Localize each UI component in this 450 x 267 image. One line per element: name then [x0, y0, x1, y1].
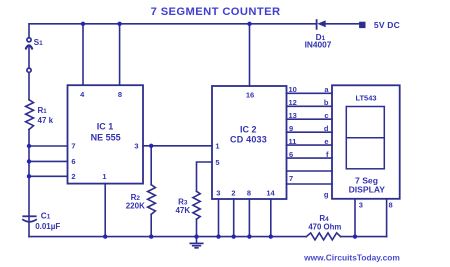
wire IC2 pin14 drop [270, 199, 272, 237]
IC2 box CD4033 [212, 86, 287, 199]
svg-text:R1: R1 [38, 106, 48, 115]
svg-text:220K: 220K [126, 202, 145, 211]
svg-text:3: 3 [216, 189, 220, 198]
junction node rail/IC2 pin2 [232, 234, 236, 238]
svg-text:10: 10 [289, 85, 297, 94]
svg-text:IC 2: IC 2 [240, 124, 257, 134]
junction node left/pin2 [27, 174, 31, 178]
svg-text:2: 2 [231, 189, 235, 198]
svg-text:g: g [324, 190, 329, 199]
svg-text:13: 13 [289, 111, 297, 120]
capacitor C1 bottom plate [22, 219, 37, 222]
junction node rail/pin1 [103, 234, 107, 238]
wire bottom rail right of R4 [341, 236, 387, 238]
svg-text:CD 4033: CD 4033 [230, 134, 267, 144]
svg-text:IC 1: IC 1 [97, 122, 114, 132]
junction node left/pin7 [27, 144, 31, 148]
wire IC1 pin2 stub [29, 175, 68, 177]
svg-text:16: 16 [246, 91, 254, 100]
wire ladder pin9 to d [287, 131, 333, 133]
wire display pin8 drop [386, 199, 388, 237]
wire IC1 pin3 to IC2 pin1 [143, 145, 212, 147]
svg-text:47K: 47K [175, 206, 190, 215]
svg-text:R3: R3 [178, 197, 188, 206]
wire IC2 pin3 drop [218, 199, 220, 237]
junction node rail/pin4 [81, 22, 85, 26]
wire IC2 pin5 to R3 [197, 162, 213, 191]
wire R3 lower lead [196, 219, 198, 236]
svg-text:5: 5 [215, 158, 219, 167]
wire ladder pin10 to a [287, 92, 333, 94]
7-seg digit middle bar [346, 137, 384, 139]
5V DC terminal square [359, 22, 365, 28]
svg-text:6: 6 [71, 157, 75, 166]
junction node rail/R2 [149, 234, 153, 238]
svg-text:e: e [324, 137, 328, 146]
wire ladder spare [287, 170, 333, 172]
7-seg display U3 box [332, 85, 400, 199]
svg-text:3: 3 [359, 201, 363, 210]
wire ladder pin13 to c [287, 118, 333, 120]
svg-text:47 k: 47 k [38, 116, 54, 125]
wire ladder pin6 to f [287, 157, 333, 159]
svg-text:NE 555: NE 555 [91, 132, 121, 142]
wire IC1 pin8 drop from rail [119, 24, 121, 85]
wire top rail right segment to 5V terminal [326, 23, 360, 25]
wire left rail R1 to C1 [28, 130, 30, 237]
svg-text:470 Ohm: 470 Ohm [308, 223, 341, 232]
switch S1 top contact circle [27, 38, 31, 42]
wire ladder pin12 to b [287, 105, 333, 107]
wire C1 to bottom rail corner [29, 236, 306, 238]
wire IC1 pin6 stub [29, 160, 68, 162]
svg-text:7: 7 [289, 174, 293, 183]
wire ladder pin7 to g [287, 183, 333, 185]
wire IC1 pin7 stub [29, 145, 68, 147]
wire R2 upper lead [150, 146, 152, 185]
switch S1 bottom contact circle [27, 68, 31, 72]
ground symbol bar3 [195, 247, 198, 249]
svg-text:9: 9 [289, 124, 293, 133]
junction node pin3/R2 [149, 144, 153, 148]
svg-text:b: b [324, 98, 329, 107]
junction node rail/pin16 [247, 22, 251, 26]
svg-text:5V DC: 5V DC [374, 20, 400, 30]
svg-text:6: 6 [289, 150, 293, 159]
ground symbol stub [196, 237, 198, 243]
resistor R2 220K zigzag [148, 185, 156, 215]
wire IC2 pin2 drop [233, 199, 235, 237]
svg-text:11: 11 [289, 137, 297, 146]
svg-text:LT543: LT543 [355, 93, 376, 102]
switch S1 arrowhead [26, 45, 32, 48]
junction node rail/IC2 pin8 [247, 234, 251, 238]
svg-text:3: 3 [134, 142, 138, 151]
junction node rail/pin8 [117, 22, 121, 26]
svg-text:1: 1 [102, 172, 106, 181]
svg-text:8: 8 [389, 201, 393, 210]
svg-text:2: 2 [71, 172, 75, 181]
wire left rail S1 to R1 [28, 73, 30, 100]
junction node left/pin6 [27, 159, 31, 163]
junction node rail/R3 ground [194, 234, 198, 238]
svg-text:DISPLAY: DISPLAY [349, 184, 386, 194]
svg-text:1: 1 [215, 142, 219, 151]
wire IC2 pin16 drop from rail [249, 24, 251, 86]
wire R2 lower lead [150, 214, 152, 236]
junction node rail/IC2 pin14 [269, 234, 273, 238]
svg-text:14: 14 [266, 189, 275, 198]
IC U1 NE555 body [68, 85, 144, 183]
wire S1 shaft [28, 46, 30, 69]
svg-text:8: 8 [118, 90, 122, 99]
svg-text:c: c [324, 111, 328, 120]
svg-text:IN4007: IN4007 [305, 39, 332, 49]
ground symbol bar1 [190, 242, 202, 244]
svg-text:12: 12 [289, 98, 297, 107]
junction node rail/IC2 pin3 [216, 234, 220, 238]
svg-text:7: 7 [71, 142, 75, 151]
junction node rail/display pin3 [353, 234, 357, 238]
svg-text:8: 8 [247, 189, 251, 198]
svg-text:7 SEGMENT COUNTER: 7 SEGMENT COUNTER [151, 6, 281, 18]
wire IC1 pin4 drop from rail [82, 24, 84, 85]
resistor R4 470 Ohm zigzag [306, 233, 340, 240]
diode D1 cathode bar [316, 20, 318, 29]
svg-text:0.01µF: 0.01µF [35, 222, 60, 231]
resistor R3 47K zigzag [193, 191, 200, 219]
ground symbol bar2 [193, 245, 201, 247]
resistor R1 47k zigzag [26, 100, 34, 130]
diode D1 triangle [317, 20, 326, 27]
svg-text:d: d [324, 124, 329, 133]
wire ladder pin11 to e [287, 144, 333, 146]
capacitor C1 top plate [22, 215, 36, 217]
wire top rail left segment [29, 24, 317, 38]
wire display pin3 drop [354, 199, 356, 237]
svg-text:www.CircuitsToday.com: www.CircuitsToday.com [303, 253, 400, 263]
wire IC1 pin1 drop to bottom rail [104, 184, 106, 237]
7-seg digit inner rectangle [346, 107, 384, 169]
wire IC2 pin8 drop [248, 199, 250, 237]
